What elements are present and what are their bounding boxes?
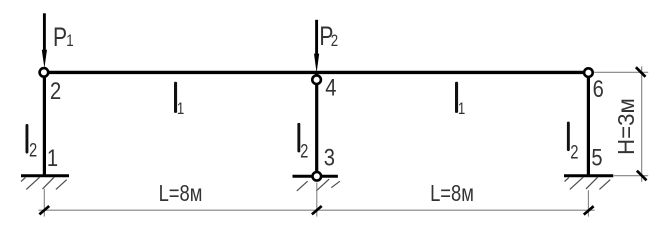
svg-text:2: 2	[331, 31, 338, 50]
fixed support base at node 5	[564, 174, 613, 177]
middle column member (nodes 3-4)	[315, 73, 318, 176]
dimension tick at node 5	[584, 206, 594, 214]
hinge node 4	[312, 75, 321, 84]
extension line below node 5	[587, 190, 589, 216]
svg-text:4: 4	[325, 74, 336, 101]
svg-text:2: 2	[300, 141, 308, 162]
svg-text:2: 2	[29, 140, 37, 161]
stiffness label I2 on left column	[26, 124, 29, 154]
load P1 arrow	[43, 13, 46, 51]
stiffness label I1 on right beam span	[455, 82, 458, 113]
extension line below node 1	[43, 189, 45, 217]
svg-text:1: 1	[458, 99, 465, 118]
svg-text:L=8м: L=8м	[159, 181, 203, 206]
pinned support base at node 3	[293, 175, 338, 178]
H dimension line	[641, 66, 643, 182]
bottom dimension line	[39, 209, 595, 211]
right column member (nodes 5-6)	[587, 72, 590, 176]
hatching of support 1	[21, 177, 67, 189]
extension line from support 5 to H dimension	[614, 175, 648, 177]
svg-text:P: P	[53, 23, 67, 53]
dimension tick at top of H line	[636, 67, 646, 77]
beam member (nodes 2-4-6)	[44, 71, 589, 74]
svg-text:L=8м: L=8м	[430, 181, 474, 206]
hatching of support 5	[565, 177, 611, 189]
dimension tick at node 3	[312, 206, 322, 214]
dimension tick at bottom of H line	[637, 171, 647, 181]
fixed support base at node 1	[21, 174, 69, 177]
svg-text:1: 1	[177, 99, 184, 118]
stiffness label I2 on middle column	[297, 123, 300, 152]
stiffness label I2 on right column	[567, 122, 570, 152]
svg-text:H=3м: H=3м	[613, 98, 639, 155]
svg-text:2: 2	[570, 142, 578, 163]
svg-text:5: 5	[591, 144, 602, 171]
load P2 arrow	[315, 20, 318, 55]
svg-text:1: 1	[47, 144, 58, 171]
hinge node 3 (pin support)	[313, 172, 322, 181]
hatching of support 3	[297, 179, 340, 191]
hinge node 6	[584, 68, 593, 77]
dimension tick at node 1	[39, 206, 49, 214]
hinge node 2	[40, 68, 49, 77]
svg-text:3: 3	[324, 144, 335, 171]
svg-text:2: 2	[50, 78, 61, 105]
extension line below node 3	[316, 183, 318, 217]
svg-text:6: 6	[593, 75, 604, 102]
stiffness label I1 on left beam span	[174, 82, 177, 113]
extension line from node 6 to H dimension	[594, 71, 648, 73]
left column member (nodes 1-2)	[43, 72, 46, 176]
svg-text:1: 1	[66, 32, 73, 51]
